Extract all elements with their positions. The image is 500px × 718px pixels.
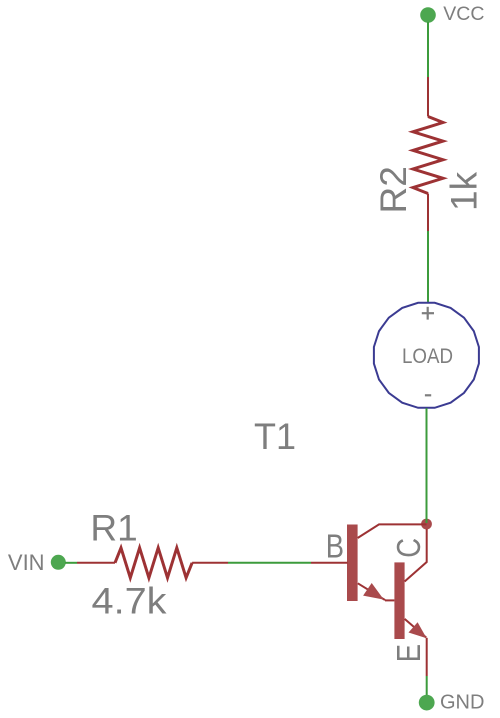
- resistor R1: [77, 548, 228, 578]
- svg-text:GND: GND: [440, 691, 484, 713]
- node GND terminal dot: [419, 695, 435, 711]
- wire Q2 collector: [405, 529, 427, 582]
- minus sign: [425, 394, 431, 396]
- plus sign: [422, 307, 434, 320]
- transistor T1 darlington: [311, 524, 427, 676]
- wire Q1 emitter: [358, 583, 385, 600]
- wire Q2 emitter: [405, 619, 427, 638]
- wire VIN stub: [65, 562, 77, 564]
- Q1 emitter arrow: [363, 583, 384, 600]
- node VCC terminal dot: [420, 7, 436, 23]
- Q1 base pin: [311, 562, 348, 564]
- svg-text:LOAD: LOAD: [402, 345, 453, 368]
- Q2 emitter arrow: [409, 622, 427, 638]
- Q2 base bar: [394, 562, 404, 639]
- svg-text:R2: R2: [373, 166, 414, 213]
- svg-text:T1: T1: [254, 416, 296, 457]
- resistor R2: [413, 77, 443, 231]
- wire Q1 collector: [358, 524, 427, 538]
- junction dot collector node: [421, 519, 432, 530]
- wire R2 to LOAD: [427, 231, 429, 302]
- load circle U1: [374, 303, 479, 408]
- svg-text:4.7k: 4.7k: [92, 581, 168, 622]
- wire emitter to GND: [426, 676, 428, 696]
- node VIN terminal dot: [51, 555, 66, 570]
- wire LOAD to collector node: [426, 408, 428, 523]
- svg-text:VCC: VCC: [443, 3, 484, 25]
- svg-text:E: E: [392, 644, 428, 662]
- svg-text:B: B: [326, 529, 344, 565]
- svg-text:C: C: [392, 538, 428, 558]
- Q1 base bar: [347, 525, 358, 602]
- wire R1 to base: [228, 562, 311, 564]
- svg-text:1k: 1k: [444, 171, 485, 211]
- svg-text:VIN: VIN: [8, 550, 45, 575]
- Q2 emitter pin wire: [426, 638, 428, 676]
- svg-text:R1: R1: [90, 508, 137, 549]
- wire VCC to R2: [427, 22, 429, 77]
